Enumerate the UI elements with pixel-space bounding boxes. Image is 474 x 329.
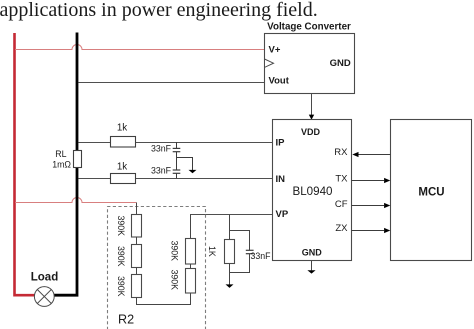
wire IP net — [79, 142, 273, 144]
resistor RL shunt body — [74, 151, 82, 168]
arrowhead into VDD pin — [309, 115, 314, 120]
svg-text:BL0940: BL0940 — [293, 185, 333, 198]
svg-text:GND: GND — [302, 247, 323, 257]
svg-text:33nF: 33nF — [151, 166, 172, 176]
wire chain2 top lead — [190, 215, 192, 239]
svg-text:applications in power engineer: applications in power engineering field. — [0, 0, 318, 21]
wire chain1 top lead — [136, 203, 138, 215]
wire ZX net with arrow into MCU — [352, 228, 391, 233]
dashed outline R2 network — [108, 207, 206, 329]
svg-text:RL: RL — [55, 149, 66, 159]
svg-text:VDD: VDD — [301, 127, 321, 137]
svg-text:1k: 1k — [117, 162, 127, 173]
svg-text:ZX: ZX — [335, 223, 348, 234]
ground symbol for C1/C2 — [189, 170, 197, 173]
svg-text:33nF: 33nF — [151, 144, 172, 154]
resistor R-1k upper body — [111, 137, 136, 148]
svg-text:MCU: MCU — [418, 187, 444, 199]
wire 1K bottom lead — [229, 264, 231, 285]
wire neutral rail (red) down to Load — [15, 33, 35, 295]
wire TX net with arrow into MCU — [352, 178, 391, 183]
svg-text:Voltage Converter: Voltage Converter — [267, 22, 351, 33]
svg-text:R2: R2 — [118, 313, 134, 327]
IC U1 BL0940 box — [273, 120, 352, 261]
svg-text:1K: 1K — [207, 246, 217, 257]
svg-text:1k: 1k — [117, 123, 127, 134]
svg-text:CF: CF — [335, 199, 348, 210]
svg-text:IN: IN — [276, 174, 286, 185]
svg-text:390K: 390K — [170, 270, 180, 291]
resistor R2b 390K body — [132, 245, 142, 268]
wire chain bottom U link — [137, 293, 191, 305]
svg-text:Vout: Vout — [269, 76, 290, 87]
svg-text:IP: IP — [276, 138, 286, 149]
svg-text:1mΩ: 1mΩ — [52, 159, 71, 169]
svg-text:VP: VP — [276, 209, 289, 220]
svg-text:390K: 390K — [170, 241, 180, 262]
svg-text:Load: Load — [31, 272, 58, 284]
resistor R2a 390K body — [132, 215, 142, 238]
resistor R-1k lower body — [111, 174, 136, 184]
wire CF net with arrow into MCU — [352, 203, 391, 208]
svg-text:GND: GND — [330, 58, 351, 69]
capacitor C1 33nF on IP net — [173, 142, 181, 152]
wire VDD feed from converter to U1 — [311, 94, 313, 116]
wire branch from C1/C2 midpoint to ground — [177, 158, 193, 171]
wire IN net — [79, 178, 273, 180]
wire RX net with arrow into U1 — [352, 152, 390, 157]
wire VP net — [190, 214, 272, 216]
wire Vout net — [79, 82, 265, 84]
wire live rail (black) through shunt RL down to Load — [54, 33, 77, 296]
svg-text:TX: TX — [335, 174, 348, 185]
resistor R2c 390K body — [132, 275, 142, 298]
wire VP divider net (red) with hop over live rail — [15, 198, 136, 203]
resistor R-1K body — [225, 240, 235, 264]
capacitor C2 33nF on IN net — [173, 152, 181, 179]
wire lead R2a-R2b — [136, 237, 138, 245]
svg-text:V+: V+ — [269, 45, 281, 56]
svg-text:390K: 390K — [116, 276, 126, 297]
wire lead R2b-R2c — [136, 268, 138, 275]
clock triangle pin — [265, 59, 274, 67]
lamp Load symbol — [34, 287, 54, 307]
MCU box — [391, 120, 472, 261]
wire lead R2d-R2e — [190, 264, 192, 269]
svg-text:RX: RX — [334, 147, 348, 158]
svg-text:390K: 390K — [116, 216, 126, 237]
resistor R2e 390K body — [186, 269, 196, 294]
capacitor C3 33nF parallel loop — [230, 231, 254, 273]
ground symbol under U1 — [307, 261, 315, 274]
ground symbol for 1K branch — [226, 284, 234, 288]
svg-text:33nF: 33nF — [251, 251, 272, 261]
wire V+ net (red) with hop over live rail — [15, 45, 265, 50]
voltage converter U2 box — [265, 34, 355, 94]
wire 1K branch top lead — [229, 215, 231, 240]
resistor R2d 390K body — [186, 239, 196, 265]
svg-text:390K: 390K — [116, 246, 126, 267]
